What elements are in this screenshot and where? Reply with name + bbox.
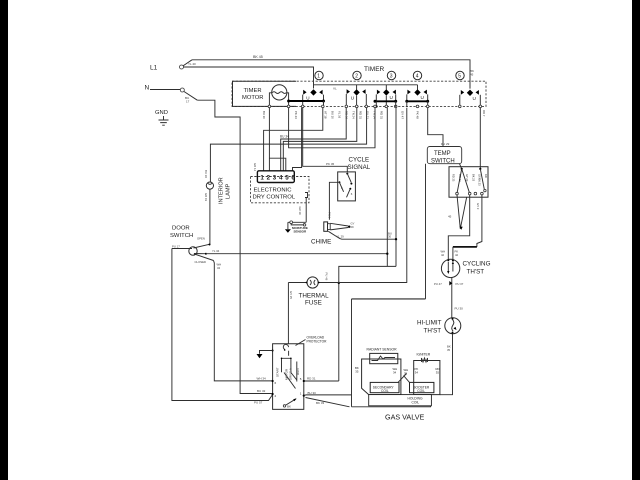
svg-text:WH 34: WH 34 [257, 377, 267, 381]
heavy bar K4 [406, 100, 428, 102]
svg-text:42: 42 [455, 253, 459, 257]
svg-text:N: N [145, 85, 150, 92]
wire K3 pins [376, 94, 395, 105]
svg-text:YL 40: YL 40 [188, 62, 196, 66]
interior lamp bulb [206, 182, 213, 189]
hi-limit thermostat [445, 318, 461, 334]
wire chime to node [328, 231, 396, 239]
wire motor BK33 to gas valve bus [306, 398, 350, 407]
svg-text:GY 23: GY 23 [465, 174, 469, 182]
wire timer K5 right pin RD7 to temp switch [479, 108, 481, 169]
svg-text:RD 31: RD 31 [359, 111, 363, 119]
svg-text:PU 37: PU 37 [456, 282, 464, 286]
timer bottom terminals [268, 105, 271, 108]
timer contact K5 left triangle [461, 90, 464, 95]
svg-text:PU 29: PU 29 [441, 142, 450, 146]
svg-text:29: 29 [351, 225, 355, 229]
gas valve right housing [414, 361, 440, 395]
motor centrifugal switch [284, 399, 297, 407]
svg-text:BK: BK [287, 405, 291, 409]
svg-text:CYCLE: CYCLE [349, 157, 370, 164]
thermal fuse F1 [307, 277, 318, 288]
wire door switch WH34 down [214, 261, 273, 381]
svg-text:GY 3: GY 3 [476, 203, 480, 210]
temp switch label box [427, 147, 461, 164]
wire K2 diamond pin [356, 96, 358, 106]
gas valve left housing [362, 359, 401, 395]
wire timer K1 left pin to cycle signal PK45 [303, 108, 348, 172]
svg-text:YL 34: YL 34 [212, 249, 220, 253]
gas valve wire labels [355, 366, 440, 375]
svg-text:START: START [276, 367, 280, 377]
secondary coil [370, 382, 399, 392]
wire K4 pins [407, 94, 428, 101]
svg-text:VT 18: VT 18 [324, 111, 328, 119]
wire staircase run lamp feed [210, 108, 366, 182]
wire lower link to thermal fuse branch [339, 266, 396, 381]
svg-text:LAMP: LAMP [226, 183, 232, 199]
svg-text:45: 45 [448, 215, 452, 219]
wire igniter feed down [351, 299, 353, 407]
timer contact K3 left triangle [377, 90, 380, 95]
timer cam circle 1 [315, 71, 323, 79]
svg-text:BU 34: BU 34 [280, 134, 289, 138]
ground at moisture sensor [288, 222, 290, 229]
electronic dry control dashed box [251, 177, 310, 203]
svg-text:BU 10: BU 10 [262, 111, 266, 119]
electronic dry control terminal strip [257, 171, 294, 183]
wire EDC pin6 riser [293, 108, 302, 171]
timer contact group K1 diamond [310, 89, 316, 95]
wire K1 right pin [323, 95, 325, 101]
svg-text:BU 10: BU 10 [331, 111, 335, 119]
wire K5 right pin [479, 95, 481, 105]
svg-text:ELECTRONIC: ELECTRONIC [254, 188, 293, 194]
timer contact group K4 diamond [417, 85, 419, 90]
holding coil box [369, 395, 432, 406]
svg-text:PU 57: PU 57 [254, 401, 263, 405]
svg-text:17: 17 [186, 99, 190, 103]
svg-text:VL: VL [333, 87, 337, 91]
svg-text:PK 48: PK 48 [416, 111, 420, 119]
svg-text:IGNITER: IGNITER [417, 353, 431, 357]
svg-text:BU 30: BU 30 [308, 391, 317, 395]
timer contact K3 right triangle [393, 90, 396, 95]
left black pillar bar [0, 0, 8, 480]
wire door switch YL34 to right [206, 253, 387, 255]
svg-text:YL 29: YL 29 [337, 234, 345, 238]
svg-text:BK 23: BK 23 [471, 174, 475, 182]
wire timer K4 right pin PU29 to temp switch [428, 108, 443, 147]
gas valve bottom bus [352, 406, 431, 407]
svg-text:COIL: COIL [412, 400, 420, 404]
svg-text:RD 7: RD 7 [482, 110, 486, 117]
wire K2 right pin [365, 94, 367, 105]
svg-text:BU 18: BU 18 [204, 170, 208, 178]
wire K1 left pin [302, 95, 304, 106]
chime [324, 222, 328, 231]
svg-text:OPEN: OPEN [197, 237, 205, 241]
wire motor right lead [287, 93, 289, 107]
timer contact K2 left triangle [347, 89, 350, 94]
svg-text:OR 23: OR 23 [458, 174, 462, 182]
timer outer dashed enclosure [232, 81, 486, 106]
timer contact group K2 diamond [356, 85, 358, 90]
svg-text:CHIME: CHIME [311, 238, 331, 245]
svg-text:30: 30 [388, 235, 392, 239]
svg-text:PU 46: PU 46 [325, 273, 329, 281]
wire EDC pin5 riser L [269, 158, 285, 171]
timer cam circle 4 [413, 71, 421, 79]
wire EDC pin2 riser [268, 108, 270, 171]
svg-text:GR 14: GR 14 [253, 163, 257, 172]
svg-text:BK 45: BK 45 [253, 55, 263, 59]
svg-text:PK 45: PK 45 [326, 162, 335, 166]
svg-text:GAS VALVE: GAS VALVE [385, 413, 424, 422]
heavy bar K1 [289, 100, 324, 102]
wire motor left lead BU10 [269, 93, 271, 105]
timer contact K1 left triangle [303, 90, 306, 95]
wire EDC to moisture sensor GR19 [305, 198, 307, 223]
svg-text:3: 3 [273, 175, 277, 182]
svg-text:2: 2 [355, 74, 358, 80]
wire pin continuations through dashed line [324, 101, 428, 107]
svg-text:TEMP: TEMP [434, 151, 451, 157]
svg-text:MOTOR: MOTOR [242, 95, 263, 101]
svg-text:CYCLING: CYCLING [463, 261, 491, 268]
svg-text:CLOSED: CLOSED [195, 260, 207, 264]
moisture sensor terminals [290, 221, 293, 224]
svg-text:PU 30: PU 30 [455, 307, 464, 311]
timer motor box U1 [233, 81, 297, 106]
svg-text:INTERIOR: INTERIOR [219, 177, 225, 204]
svg-text:YL 16: YL 16 [338, 111, 342, 119]
wire N return run [197, 100, 272, 394]
wire temp switch to cycling thermostat left [448, 195, 469, 260]
svg-text:42: 42 [441, 253, 445, 257]
drive motor box [273, 344, 304, 410]
motor ground [272, 350, 274, 352]
svg-text:RADIANT SENSOR: RADIANT SENSOR [367, 348, 398, 352]
svg-text:RD 31: RD 31 [307, 377, 316, 381]
timer motor M circle [272, 85, 287, 100]
svg-text:GY 47: GY 47 [401, 111, 405, 119]
svg-text:TIMER: TIMER [364, 66, 385, 73]
timer contact K4 right triangle [424, 90, 427, 95]
svg-text:DRY CONTROL: DRY CONTROL [253, 195, 296, 201]
motor terminals [272, 380, 274, 382]
svg-text:PK 43: PK 43 [294, 111, 298, 119]
timer cam circle 2 [353, 71, 361, 79]
svg-text:BK 33: BK 33 [316, 401, 325, 405]
svg-text:34: 34 [415, 370, 419, 374]
svg-text:PROTECTOR: PROTECTOR [307, 340, 328, 344]
overload protector symbol [283, 344, 288, 349]
svg-text:1: 1 [317, 74, 320, 80]
svg-text:COIL: COIL [417, 389, 425, 393]
svg-text:35: 35 [355, 369, 359, 373]
timer contact K1 right triangle [319, 90, 322, 95]
wire thermal fuse to motor [287, 283, 289, 344]
temp switch S2 box [449, 167, 488, 198]
svg-text:GND: GND [155, 110, 168, 116]
timer contact K5 right triangle [476, 90, 479, 95]
heavy bar K3 [375, 100, 397, 102]
wire K2 left pin [345, 94, 347, 105]
wire timer K4 left pin down to fuse line [406, 108, 408, 283]
wire hi-limit down to gas valve [440, 334, 453, 395]
wire L1 blade to BK45 bus [183, 60, 192, 66]
svg-text:35: 35 [447, 348, 451, 352]
svg-text:2: 2 [267, 175, 271, 182]
booster coil [410, 382, 434, 392]
svg-text:PU 47: PU 47 [434, 282, 442, 286]
wire L1 feed to timer contact 1 [184, 67, 314, 89]
wire staircase run to EDC pin5 [283, 108, 357, 171]
timer contact K2 right triangle [362, 89, 365, 94]
svg-text:GR 19: GR 19 [298, 207, 302, 216]
svg-text:45: 45 [470, 72, 474, 76]
wire temp switch to cycling thermostat right [477, 195, 482, 247]
wire K5 left pin [459, 95, 461, 105]
svg-text:6: 6 [291, 175, 295, 182]
svg-text:GY 21: GY 21 [366, 111, 370, 119]
svg-text:U: U [473, 96, 476, 101]
svg-text:GY/BK 23: GY/BK 23 [478, 174, 482, 186]
svg-text:GR 19: GR 19 [204, 193, 208, 202]
svg-text:PU 17: PU 17 [172, 244, 180, 248]
svg-text:PK 6: PK 6 [328, 212, 332, 219]
wire timer K3 diamond pin down YL34 junction [386, 108, 388, 267]
wire door switch PU17 down left side [172, 249, 273, 401]
wire staircase run BU34 to EDC pin4 [281, 108, 347, 171]
svg-text:HI-LIMIT: HI-LIMIT [417, 320, 442, 327]
svg-text:TIMER: TIMER [244, 88, 262, 94]
wire motor run RD31 [304, 380, 339, 382]
svg-text:RD 31: RD 31 [380, 111, 384, 119]
svg-text:4: 4 [416, 74, 419, 80]
timer cam circle 5 [456, 71, 464, 79]
svg-text:SENSOR: SENSOR [294, 230, 308, 234]
svg-text:THERMAL: THERMAL [299, 293, 330, 300]
timer contact group K5 diamond [467, 90, 473, 96]
svg-text:RD 23: RD 23 [452, 174, 456, 182]
svg-text:U: U [421, 95, 424, 100]
svg-text:TH'ST: TH'ST [467, 269, 485, 276]
svg-text:SWITCH: SWITCH [431, 158, 455, 164]
svg-text:5: 5 [285, 175, 289, 182]
svg-text:34: 34 [217, 266, 221, 270]
cycle signal switch box [338, 172, 356, 201]
wire cycling to hi-limit [451, 278, 453, 318]
svg-text:TH'ST: TH'ST [424, 327, 442, 334]
svg-text:COIL: COIL [381, 389, 389, 393]
wire staircase run PK43 [289, 108, 375, 148]
right black pillar bar [632, 0, 640, 480]
svg-text:SIGNAL: SIGNAL [348, 164, 371, 171]
wire timer K3 right pin down chime junction [395, 108, 397, 267]
svg-text:RD: RD [484, 174, 488, 178]
svg-text:3: 3 [390, 74, 393, 80]
wire cycle signal to chime [329, 182, 337, 219]
svg-text:SWITCH: SWITCH [170, 233, 193, 239]
wire BK45 top bus [192, 60, 470, 89]
svg-text:U: U [351, 95, 354, 100]
wire igniter circuit horizontal [352, 298, 426, 300]
wire timer feed bus VL [314, 84, 418, 86]
svg-text:DOOR: DOOR [172, 226, 190, 232]
svg-text:5: 5 [458, 74, 461, 80]
svg-text:BU 32: BU 32 [257, 389, 266, 393]
svg-text:TN 24: TN 24 [352, 111, 356, 119]
svg-text:U: U [306, 95, 309, 100]
svg-text:L1: L1 [150, 65, 158, 72]
svg-text:1: 1 [260, 175, 264, 182]
temp sensing dial [457, 195, 467, 229]
wire code labels under timer [262, 111, 420, 119]
wire staircase run 1 to EDC pin1 [264, 108, 323, 171]
cycling thermostat [441, 259, 459, 277]
svg-text:U: U [390, 95, 393, 100]
timer contact group K3 diamond [385, 85, 387, 90]
svg-text:GY 35: GY 35 [289, 291, 293, 299]
svg-text:34: 34 [393, 370, 397, 374]
svg-text:TN 14: TN 14 [373, 111, 377, 119]
svg-text:35: 35 [436, 370, 440, 374]
wire N switch blade [184, 92, 197, 101]
timer cam circle 3 [387, 71, 395, 79]
timer contact K4 left triangle [407, 90, 410, 95]
svg-text:FUSE: FUSE [305, 300, 322, 307]
temp switch blades [457, 169, 484, 192]
motor internal windings [276, 367, 301, 380]
wire motor T1 BU30 [304, 394, 352, 397]
svg-text:4: 4 [279, 175, 283, 182]
